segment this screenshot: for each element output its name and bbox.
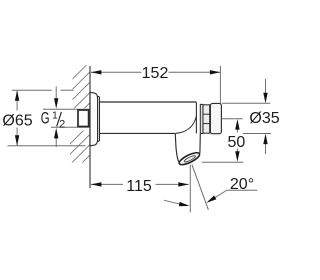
spout left edge: [175, 134, 178, 163]
knurled nut: [203, 105, 210, 133]
angle left leader arrow: [179, 202, 190, 208]
extension lines for G 1/2: [43, 109, 90, 127]
dimension diameter 35 line segments: [265, 79, 267, 154]
svg-text:2: 2: [59, 118, 65, 130]
wall hatching upper section: [72, 62, 90, 121]
body cylinder top line: [100, 101, 197, 103]
wall face line (also extension line for dims 152 and 115): [89, 66, 91, 188]
svg-text:1: 1: [52, 110, 58, 121]
spout outlet ellipse: [178, 150, 201, 166]
spout right edge: [199, 134, 201, 153]
svg-text:50: 50: [228, 134, 246, 151]
svg-text:20°: 20°: [230, 176, 254, 193]
dimension 50 line segments: [236, 127, 238, 156]
svg-text:115: 115: [126, 178, 152, 195]
svg-text:Ø65: Ø65: [2, 112, 32, 129]
extension line at button face for dim 152: [219, 66, 221, 119]
svg-text:G: G: [41, 110, 50, 128]
diameter 35 top arrow: [263, 93, 267, 104]
angle right leader line with underline: [209, 190, 258, 201]
diameter 65 bottom arrow: [15, 135, 19, 146]
angle left leader line: [164, 200, 187, 205]
body end face line: [195, 102, 197, 133]
threaded inlet square behind wall: [78, 110, 89, 127]
dimension G 1/2 line segments: [55, 86, 57, 147]
flange rim ring: [95, 96, 100, 141]
dimension 152 left arrow: [91, 70, 102, 74]
body cylinder bottom line: [100, 132, 176, 134]
angle reference vertical leg: [189, 165, 191, 213]
svg-text:152: 152: [142, 65, 169, 82]
nut division line lower: [203, 123, 210, 125]
angle right leader arrow: [205, 195, 216, 204]
dim 50 bottom arrow: [235, 151, 239, 162]
flange dome (wall rosette): [90, 92, 98, 146]
dim 115 right arrow: [178, 182, 189, 186]
nut division line upper: [203, 113, 210, 115]
ring collar at body end: [200, 104, 203, 133]
extension lines for diameter 65: [8, 90, 86, 146]
push button cap: [210, 103, 221, 133]
fraction slash: [57, 112, 62, 127]
G 1/2 top arrow: [54, 98, 58, 109]
dimension 152 line segments: [91, 71, 220, 73]
extension lines for dim 50: [202, 119, 243, 163]
wall hatching lower section: [68, 124, 90, 187]
dim 50 top arrow: [235, 119, 239, 130]
extension lines for diameter 35: [222, 103, 271, 133]
angle slanted leg 20 degrees: [192, 165, 209, 210]
dimension 115 line segments: [91, 183, 189, 185]
parting curve between body and spout piece: [176, 116, 197, 133]
diameter 35 bottom arrow: [263, 134, 267, 145]
dimension 152 right arrow: [210, 70, 221, 74]
svg-text:Ø35: Ø35: [249, 110, 279, 127]
diameter 65 top arrow: [15, 90, 19, 101]
dimension diameter 65 line segments: [16, 91, 18, 145]
dim 115 left arrow: [91, 182, 102, 186]
G 1/2 bottom arrow: [54, 128, 58, 138]
